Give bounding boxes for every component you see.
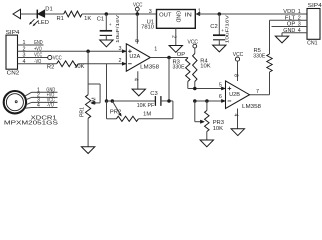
wire U2A pin8 to VCC rail	[136, 14, 138, 44]
svg-text:1M: 1M	[143, 112, 151, 118]
power VCC (R4)	[188, 40, 199, 48]
svg-text:2: 2	[171, 35, 177, 38]
preset PR2	[110, 101, 151, 121]
svg-text:C3: C3	[150, 91, 157, 97]
resistor R5	[253, 48, 272, 72]
resistor R3	[173, 58, 191, 82]
ground (C1)	[100, 40, 113, 47]
power VCC (CN2)	[48, 55, 62, 61]
svg-text:3: 3	[149, 9, 152, 15]
op-amp U2B LM358	[226, 81, 262, 110]
op-amp U2A LM358	[126, 44, 159, 72]
node PR2-left junction	[105, 99, 109, 103]
svg-text:PR1: PR1	[80, 107, 86, 117]
svg-text:8: 8	[233, 74, 239, 77]
svg-text:10K: 10K	[74, 64, 84, 70]
wire U1 pin2 down	[171, 28, 177, 45]
CN1 pin labels	[283, 9, 300, 34]
svg-text:VCC: VCC	[34, 53, 42, 59]
svg-text:1: 1	[298, 9, 301, 15]
CN2 pin4 -VO wire	[18, 59, 57, 65]
svg-text:4: 4	[23, 59, 26, 65]
svg-text:VCC: VCC	[233, 52, 244, 58]
power VCC (top rail)	[133, 3, 143, 14]
svg-text:R2: R2	[47, 65, 54, 71]
svg-text:C1: C1	[97, 16, 104, 22]
arrow into U2A pin3	[122, 50, 126, 53]
pin 5 label	[219, 83, 222, 89]
svg-text:LM358: LM358	[140, 65, 159, 71]
node C2 junction	[218, 12, 222, 16]
svg-text:1K: 1K	[84, 16, 91, 22]
svg-text:1: 1	[154, 47, 157, 53]
pin 1 label (U2A out)	[154, 47, 157, 53]
wire pin6 row	[195, 100, 226, 102]
svg-text:330E: 330E	[253, 54, 265, 60]
svg-text:GND: GND	[283, 28, 295, 34]
svg-text:SIP4: SIP4	[308, 3, 322, 9]
svg-text:+VO: +VO	[34, 47, 42, 53]
svg-text:OP: OP	[287, 22, 296, 28]
pin 8 label (U2A)	[133, 39, 139, 42]
capacitor C3	[137, 91, 161, 109]
wire CN1 OP stub	[272, 26, 308, 28]
arrow into U2A pin2	[122, 62, 126, 65]
pin 3 label (U2A+)	[119, 46, 122, 52]
svg-text:3: 3	[23, 53, 26, 59]
sensor XDCR1 MPXM2051GS	[4, 88, 59, 127]
CN2 pin1 GND wire	[18, 40, 44, 46]
resistor R4	[193, 48, 211, 81]
wire U2A out (OP net)	[150, 57, 188, 59]
arrow into U2B pin5	[221, 87, 225, 90]
svg-text:3: 3	[119, 46, 122, 52]
wire feedback down	[168, 58, 170, 101]
svg-text:OUT: OUT	[159, 12, 172, 18]
svg-text:U2B: U2B	[229, 92, 240, 98]
ground (PR3)	[200, 140, 213, 147]
svg-text:10K: 10K	[200, 63, 210, 69]
resistor R1	[57, 11, 92, 22]
svg-text:FLT: FLT	[285, 15, 296, 21]
svg-text:GND: GND	[174, 11, 180, 23]
svg-text:8: 8	[133, 39, 139, 42]
wire R5 to U2B out	[250, 72, 270, 95]
svg-text:LM358: LM358	[242, 104, 261, 110]
node C1 junction	[105, 12, 109, 16]
svg-text:4: 4	[298, 28, 301, 34]
wire LED to R1	[45, 13, 64, 15]
svg-text:1M: 1M	[91, 97, 97, 104]
wire C3 row	[107, 100, 156, 102]
svg-text:CN2: CN2	[7, 71, 20, 77]
LED D1	[29, 6, 53, 26]
svg-text:2: 2	[23, 47, 26, 53]
ground (U2A pin4)	[132, 89, 145, 96]
node PR2 wiper junction	[111, 99, 115, 103]
node PR3 junction	[205, 99, 209, 103]
svg-text:SIP4: SIP4	[6, 30, 21, 36]
regulator U1 7810	[141, 9, 201, 31]
node +VO junction	[86, 50, 90, 54]
wire R1 to U1 OUT	[82, 13, 157, 15]
svg-text:OP: OP	[177, 52, 186, 58]
wire U2A pin2 feedback down	[106, 64, 108, 101]
wire CN1 FLT	[270, 19, 308, 21]
wire R2 to U2A pin2	[78, 63, 126, 65]
ground (CN1)	[275, 36, 288, 43]
svg-text:4: 4	[133, 78, 139, 81]
svg-text:7: 7	[256, 89, 259, 95]
preset PR1	[80, 51, 100, 146]
svg-text:+: +	[221, 29, 224, 34]
svg-text:1: 1	[23, 40, 26, 46]
capacitor C2	[210, 14, 230, 45]
power VCC (U2B pin8)	[233, 52, 244, 81]
svg-text:7810: 7810	[141, 25, 154, 31]
CN2 pin2 +VO wire	[18, 47, 127, 53]
svg-text:+: +	[109, 23, 112, 28]
arrow into U2B pin6	[221, 99, 225, 102]
svg-text:LED: LED	[38, 20, 49, 26]
wire U2A pin4 down	[133, 71, 139, 89]
connector CN2 SIP4	[6, 30, 21, 77]
svg-text:10K: 10K	[213, 126, 223, 132]
svg-text:PR2: PR2	[110, 110, 121, 116]
svg-text:6: 6	[219, 94, 222, 100]
wire terminal to LED	[21, 13, 38, 15]
wire FLT to R5	[269, 20, 271, 54]
svg-text:C2: C2	[210, 24, 217, 30]
wire R4 bottom to U2B pin5	[188, 82, 226, 89]
preset PR3	[195, 101, 224, 140]
ground (PR1)	[81, 147, 94, 154]
svg-text:2: 2	[119, 58, 122, 64]
svg-text:IN: IN	[185, 12, 192, 18]
svg-text:GND: GND	[34, 40, 43, 46]
svg-text:-VO: -VO	[47, 103, 54, 109]
wire C3 right	[161, 100, 173, 102]
label OP	[177, 52, 186, 58]
svg-text:2: 2	[298, 15, 301, 21]
wire R3 bottom to pin5 row	[187, 82, 189, 89]
resistor R2	[47, 61, 85, 71]
svg-text:3: 3	[298, 22, 301, 28]
svg-text:CN1: CN1	[307, 40, 318, 46]
svg-text:MPXM2051GS: MPXM2051GS	[4, 121, 58, 127]
svg-text:R1: R1	[57, 16, 64, 22]
ground (U1 pin2)	[169, 46, 182, 53]
pin 6 label	[219, 94, 222, 100]
wire U1 IN to CN1 VDD	[196, 13, 308, 15]
svg-text:10K PF: 10K PF	[137, 103, 155, 109]
ground (C2)	[213, 45, 226, 52]
node R4/pin5 junction	[193, 87, 197, 91]
input terminal arrow (left)	[13, 9, 21, 18]
node feedback junction	[167, 56, 171, 60]
capacitor C1	[97, 14, 121, 43]
svg-text:VCC: VCC	[133, 3, 143, 9]
pin 7 label	[256, 89, 259, 95]
wire PR2 left lead	[107, 101, 117, 119]
wire U2B pin4 down	[233, 108, 239, 128]
svg-text:D1: D1	[45, 6, 52, 12]
svg-text:VDD: VDD	[283, 9, 295, 15]
wire PR2 right loop	[138, 101, 173, 119]
ground (U2B pin4)	[231, 129, 244, 136]
svg-text:10uF/16V: 10uF/16V	[224, 14, 230, 43]
CN2 pin3 VCC wire	[18, 53, 48, 59]
pin 2 label (U2A-)	[119, 58, 122, 64]
node wiper junction	[193, 99, 197, 103]
svg-text:-VO: -VO	[34, 59, 41, 65]
wire CN1 GND	[282, 33, 307, 36]
node VCC junction	[136, 12, 140, 16]
svg-text:U2A: U2A	[129, 54, 140, 60]
svg-text:330E: 330E	[173, 64, 185, 70]
svg-text:VCC: VCC	[188, 40, 199, 46]
svg-text:10uF/16V: 10uF/16V	[115, 14, 121, 43]
node C3-right junction	[167, 99, 171, 103]
svg-text:4: 4	[233, 114, 239, 117]
svg-text:VCC: VCC	[53, 56, 62, 62]
connector CN1 SIP4	[307, 3, 322, 46]
